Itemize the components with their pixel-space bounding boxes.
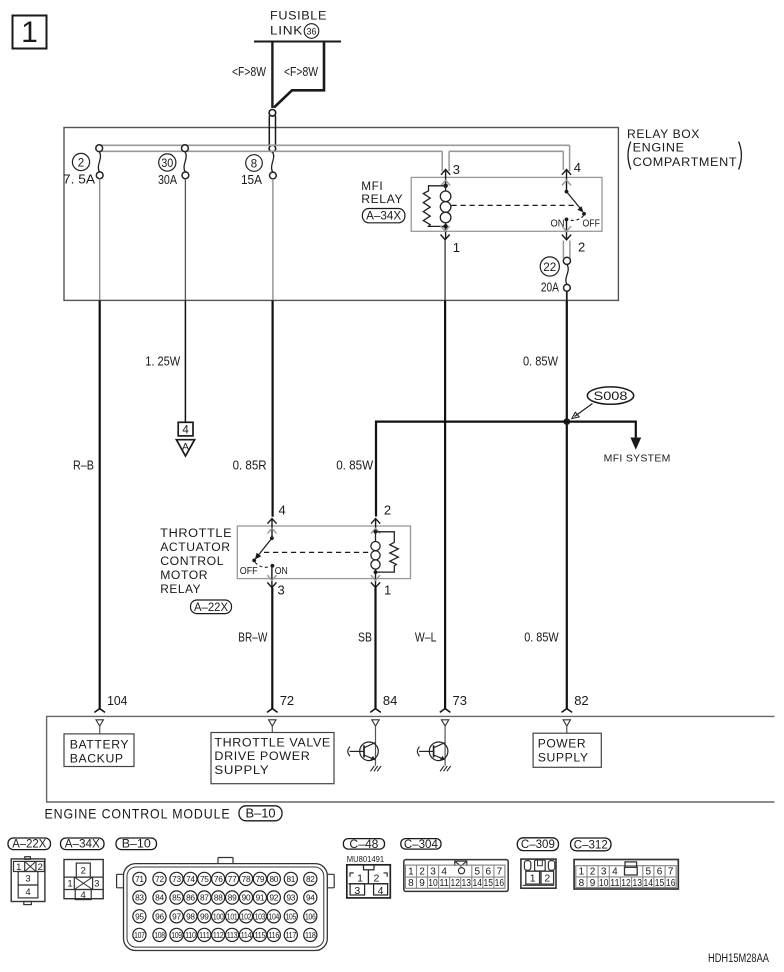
svg-text:3: 3 (453, 162, 460, 177)
svg-text:1: 1 (408, 867, 414, 878)
dashed throw arc (569, 216, 584, 221)
svg-text:20A: 20A (541, 281, 560, 295)
MFI relay resistor (423, 186, 445, 227)
svg-text:POWER: POWER (538, 737, 587, 751)
fuse 22 socket prongs (563, 241, 570, 259)
connector C-304 face (404, 860, 508, 892)
svg-text:100: 100 (213, 911, 224, 921)
svg-text:A–34X: A–34X (65, 839, 100, 851)
svg-text:R–B: R–B (73, 459, 94, 473)
MFI relay OFF contact (582, 212, 586, 216)
throttle ON contact (271, 564, 275, 568)
connector label C-48 (343, 839, 384, 851)
svg-text:10: 10 (599, 878, 609, 889)
svg-text:SUPPLY: SUPPLY (214, 763, 269, 777)
svg-text:106: 106 (305, 911, 316, 921)
wire W-L full drop (444, 300, 446, 708)
pin 3 chevrons (441, 170, 450, 186)
fuse 30 30A (158, 145, 189, 187)
svg-text:6: 6 (486, 867, 492, 878)
svg-text:112: 112 (213, 930, 224, 940)
throttle switch arm (258, 538, 272, 556)
svg-text:0. 85R: 0. 85R (233, 459, 267, 473)
svg-text:2: 2 (38, 862, 43, 873)
connector label B-10 (116, 838, 157, 851)
svg-text:10: 10 (428, 878, 438, 889)
bus wire upper (99, 144, 570, 146)
ECM input triangle pin 72 (269, 720, 276, 726)
svg-text:RELAY: RELAY (160, 582, 201, 596)
svg-text:S008: S008 (594, 389, 628, 403)
svg-text:3: 3 (430, 867, 436, 878)
svg-text:A–34X: A–34X (366, 209, 401, 223)
svg-text:78: 78 (242, 874, 251, 884)
svg-text:11: 11 (439, 878, 449, 889)
svg-text:MOTOR: MOTOR (160, 568, 208, 582)
svg-text:SB: SB (358, 631, 372, 645)
svg-text:0. 85W: 0. 85W (523, 355, 558, 369)
svg-text:4: 4 (574, 160, 581, 175)
svg-text:2: 2 (419, 867, 425, 878)
svg-text:1: 1 (530, 873, 536, 885)
page number box 1 (13, 16, 47, 50)
svg-text:94: 94 (306, 893, 315, 903)
MFI relay ON contact (565, 218, 569, 222)
svg-text:83: 83 (135, 893, 144, 903)
throttle pin 4 chevrons (267, 519, 276, 539)
MFI pin 2 exit chevrons (562, 219, 571, 239)
svg-text:96: 96 (155, 911, 164, 921)
svg-text:92: 92 (269, 893, 278, 903)
wire end chevron at ECM pin 104 (94, 709, 105, 713)
svg-text:15A: 15A (241, 173, 263, 187)
throttle coil node bottom (374, 570, 378, 574)
fusible link top bar wire (254, 41, 341, 43)
svg-text:1. 25W: 1. 25W (145, 355, 180, 369)
dashed throw arc (255, 562, 271, 567)
svg-text:BR–W: BR–W (238, 631, 267, 645)
splice S008 oval (572, 387, 634, 419)
svg-text:1: 1 (453, 240, 460, 255)
svg-text:7: 7 (668, 867, 674, 878)
svg-text:THROTTLE VALVE: THROTTLE VALVE (214, 736, 331, 750)
svg-text:ENGINE: ENGINE (633, 140, 685, 154)
MFI relay coil node bottom (443, 224, 448, 229)
svg-text:ENGINE CONTROL MODULE: ENGINE CONTROL MODULE (45, 806, 231, 822)
svg-text:109: 109 (171, 930, 182, 940)
svg-text:A–22X: A–22X (194, 600, 228, 614)
svg-text:0. 85W: 0. 85W (336, 459, 373, 473)
svg-text:4: 4 (279, 502, 286, 517)
svg-text:103: 103 (255, 911, 266, 921)
svg-text:93: 93 (286, 893, 295, 903)
svg-text:FUSIBLE: FUSIBLE (270, 9, 327, 23)
svg-text:15: 15 (484, 878, 494, 889)
dashed actuation link (264, 551, 370, 553)
svg-text:MFI SYSTEM: MFI SYSTEM (604, 454, 671, 465)
svg-text:MU801491: MU801491 (347, 854, 385, 864)
svg-text:71: 71 (135, 874, 144, 884)
fuse 8 15A (241, 152, 276, 187)
transistor Q1 (348, 726, 381, 771)
MFI relay coil L1 (440, 186, 451, 227)
svg-text:4: 4 (378, 885, 384, 897)
svg-text:84: 84 (383, 693, 397, 708)
MFI relay U1 box (411, 177, 602, 231)
svg-text:4: 4 (25, 887, 30, 898)
ECM input triangle pin 84 (372, 720, 379, 726)
svg-text:72: 72 (155, 874, 164, 884)
node S008 junction (563, 418, 570, 425)
svg-text:1: 1 (67, 879, 72, 890)
svg-text:99: 99 (200, 911, 209, 921)
pin 4 chevrons (562, 170, 571, 192)
wire from fuse 30 inside relay box (184, 179, 186, 301)
svg-text:80: 80 (269, 874, 278, 884)
svg-text:MFI: MFI (361, 179, 383, 193)
throttle pin 2 chevrons (371, 519, 380, 532)
svg-text:4: 4 (441, 867, 447, 878)
svg-text:77: 77 (228, 874, 237, 884)
svg-text:114: 114 (241, 930, 252, 940)
svg-text:72: 72 (280, 693, 294, 708)
svg-text:C–48: C–48 (349, 839, 378, 851)
svg-text:9: 9 (590, 878, 596, 889)
power supply block (533, 733, 601, 767)
wire right drop <F>8W (274, 42, 324, 108)
throttle coil node top (374, 530, 378, 534)
svg-text:2: 2 (578, 240, 585, 255)
svg-text:117: 117 (286, 930, 297, 940)
MFI relay actuation dashed link (452, 204, 576, 206)
svg-text:B–10: B–10 (246, 807, 276, 821)
svg-text:95: 95 (135, 911, 144, 921)
svg-text:3: 3 (25, 874, 30, 885)
svg-text:75: 75 (200, 874, 209, 884)
svg-text:2: 2 (544, 873, 550, 885)
connector label C-309 (517, 838, 558, 851)
svg-text:9: 9 (419, 878, 425, 889)
svg-text:87: 87 (200, 893, 209, 903)
svg-text:12: 12 (621, 878, 631, 889)
wire left drop <F>8W (271, 42, 273, 109)
connector A-34X face (64, 860, 103, 900)
throttle valve drive power supply block (211, 733, 334, 784)
connector C-309 face (521, 859, 556, 888)
wire 1.25W (184, 300, 186, 421)
svg-text:W–L: W–L (415, 631, 437, 645)
connector label C-304 (401, 839, 441, 851)
ECM input triangle pin 104 (96, 720, 103, 726)
fusible link symbol (double line) (269, 110, 276, 152)
wire end chevron at ECM pin 73 (440, 709, 451, 713)
svg-text:13: 13 (461, 878, 471, 889)
throttle pin 3 exit chevrons (267, 566, 276, 588)
svg-text:1: 1 (16, 862, 21, 873)
svg-text:16: 16 (666, 878, 676, 889)
svg-text:6: 6 (657, 867, 663, 878)
ground (440, 766, 451, 771)
wire end chevron at ECM pin 84 (370, 709, 381, 713)
svg-text:2: 2 (81, 866, 86, 877)
ECM input triangle pin 82 (563, 720, 570, 726)
MFI pin 1 exit chevrons (441, 226, 450, 239)
svg-text:3: 3 (601, 867, 607, 878)
throttle resistor (376, 532, 399, 572)
svg-text:30A: 30A (158, 173, 178, 187)
svg-text:7. 5A: 7. 5A (63, 173, 96, 187)
throttle pin 1 exit chevrons (371, 572, 380, 588)
MFI relay switch arm (567, 192, 582, 210)
svg-text:2: 2 (384, 502, 391, 517)
bus wire lower (99, 150, 563, 152)
wire from fuse 8 inside relay box (272, 179, 274, 301)
svg-text:1: 1 (21, 16, 38, 49)
svg-text:13: 13 (632, 878, 642, 889)
svg-text:90: 90 (242, 893, 251, 903)
svg-text:ON: ON (275, 565, 288, 577)
ECM U2 box (47, 716, 775, 802)
MFI RELAY caption (361, 179, 403, 206)
off-page connector box 4 (178, 422, 193, 436)
svg-text:113: 113 (227, 930, 238, 940)
svg-text:4: 4 (182, 425, 189, 437)
wire 0.85W main drop (566, 300, 568, 708)
svg-text:101: 101 (227, 911, 238, 921)
wire 0.85R (272, 300, 274, 516)
svg-text:<F>8W: <F>8W (232, 65, 266, 79)
connector label B-10 (caption) (239, 806, 282, 821)
lead to power supply block (566, 726, 568, 733)
svg-text:82: 82 (574, 693, 588, 708)
svg-text:84: 84 (155, 893, 164, 903)
svg-text:8: 8 (251, 158, 257, 170)
fuse 22 20A (540, 257, 570, 295)
connector label C-312 (571, 838, 612, 851)
svg-text:0. 85W: 0. 85W (524, 631, 559, 645)
wire end chevron at ECM pin 82 (562, 709, 573, 713)
wire BR-W (271, 588, 273, 709)
svg-text:98: 98 (186, 911, 195, 921)
svg-text:108: 108 (154, 930, 165, 940)
connector C-312 face (574, 860, 678, 890)
wire SB (374, 588, 376, 709)
battery backup block (64, 734, 134, 767)
wire W-L inside relay box (444, 240, 446, 301)
svg-text:RELAY: RELAY (361, 192, 403, 206)
svg-text:4: 4 (612, 867, 618, 878)
svg-text:1: 1 (357, 872, 363, 884)
svg-text:14: 14 (473, 878, 483, 889)
svg-text:12: 12 (450, 878, 460, 889)
connector pin 3 socket prongs (442, 151, 449, 171)
svg-text:73: 73 (453, 693, 467, 708)
svg-text:11: 11 (610, 878, 620, 889)
svg-text:111: 111 (199, 930, 210, 940)
svg-text:2: 2 (590, 867, 596, 878)
MFI relay coil node top (443, 184, 448, 189)
lead to battery backup (99, 726, 101, 734)
ECM input triangle pin 73 (441, 720, 448, 726)
svg-text:BACKUP: BACKUP (70, 751, 124, 765)
svg-text:ACTUATOR: ACTUATOR (160, 540, 231, 554)
svg-text:79: 79 (256, 874, 265, 884)
connector label A-34X (61, 838, 105, 851)
wire R-B (99, 300, 101, 708)
svg-text:76: 76 (214, 874, 223, 884)
svg-text:104: 104 (107, 693, 127, 708)
svg-text:LINK: LINK (270, 24, 303, 38)
branch wire to MFI SYSTEM (567, 422, 636, 439)
svg-text:110: 110 (185, 930, 196, 940)
svg-text:BATTERY: BATTERY (70, 737, 130, 751)
throttle coil L2 (371, 532, 380, 572)
svg-text:73: 73 (172, 874, 181, 884)
svg-text:5: 5 (475, 867, 481, 878)
off-page triangle A (176, 440, 194, 456)
svg-text:2: 2 (78, 157, 84, 169)
svg-text:DRIVE POWER: DRIVE POWER (214, 749, 310, 763)
relay box (engine compartment) (64, 128, 618, 301)
throttle OFF contact (252, 559, 256, 563)
svg-text:22: 22 (543, 262, 556, 274)
svg-text:CONTROL: CONTROL (160, 554, 224, 568)
branch wire to throttle relay pin 2 (376, 422, 567, 517)
connector B-10 face (117, 858, 335, 951)
svg-text:85: 85 (172, 893, 181, 903)
wire from fuse 2 inside relay box (99, 179, 101, 301)
ground (371, 766, 382, 771)
svg-text:COMPARTMENT: COMPARTMENT (633, 155, 738, 169)
svg-text:3: 3 (94, 879, 99, 890)
connector A-22X face (11, 857, 45, 905)
connector label A-22X (8, 838, 51, 851)
svg-text:2: 2 (373, 872, 379, 884)
fusible link 36 label (270, 9, 327, 39)
throttle switch common dot (270, 536, 274, 540)
svg-text:SUPPLY: SUPPLY (538, 751, 589, 765)
svg-text:118: 118 (305, 930, 316, 940)
svg-text:OFF: OFF (240, 565, 258, 577)
transistor Q2 (417, 726, 450, 771)
svg-text:1: 1 (579, 867, 585, 878)
svg-text:116: 116 (269, 930, 280, 940)
wire below fuse 22 inside box (566, 291, 568, 300)
svg-text:C–304: C–304 (404, 839, 439, 851)
svg-text:89: 89 (228, 893, 237, 903)
svg-text:115: 115 (255, 930, 266, 940)
svg-text:81: 81 (286, 874, 295, 884)
svg-text:82: 82 (306, 874, 315, 884)
svg-text:86: 86 (186, 893, 195, 903)
svg-text:88: 88 (214, 893, 223, 903)
MFI relay switch common dot (565, 190, 569, 194)
svg-text:74: 74 (186, 874, 195, 884)
throttle relay K2 box (237, 526, 410, 579)
svg-text:<F>8W: <F>8W (284, 65, 318, 79)
svg-text:8: 8 (408, 878, 414, 889)
svg-text:HDH15M28AA: HDH15M28AA (708, 953, 769, 965)
svg-text:107: 107 (134, 930, 145, 940)
svg-text:104: 104 (269, 911, 280, 921)
lead to throttle valve block (271, 726, 273, 733)
svg-text:7: 7 (497, 867, 503, 878)
svg-text:3: 3 (354, 885, 360, 897)
connector label A-34X (relay) (362, 209, 405, 223)
svg-text:RELAY BOX: RELAY BOX (627, 127, 700, 141)
svg-text:A–22X: A–22X (12, 839, 46, 851)
svg-text:A: A (182, 441, 189, 453)
svg-text:5: 5 (646, 867, 652, 878)
svg-text:15: 15 (655, 878, 665, 889)
svg-text:C–309: C–309 (521, 839, 555, 851)
svg-text:4: 4 (81, 890, 86, 901)
svg-text:C–312: C–312 (574, 839, 608, 851)
THROTTLE ACTUATOR CONTROL MOTOR RELAY caption (160, 526, 232, 596)
wire end chevron at ECM pin 72 (267, 709, 278, 713)
svg-text:105: 105 (286, 911, 297, 921)
svg-text:8: 8 (579, 878, 585, 889)
svg-text:16: 16 (495, 878, 505, 889)
svg-text:91: 91 (256, 893, 265, 903)
svg-text:102: 102 (241, 911, 252, 921)
relay box caption (627, 127, 741, 170)
svg-text:3: 3 (278, 582, 285, 597)
fuse 2 7.5A (63, 145, 103, 187)
svg-text:THROTTLE: THROTTLE (160, 526, 232, 540)
svg-text:14: 14 (644, 878, 654, 889)
connector pin 4 socket prongs (563, 145, 569, 171)
svg-text:36: 36 (307, 27, 317, 38)
svg-text:1: 1 (384, 582, 391, 597)
connector label A-22X (relay) (191, 600, 232, 614)
svg-text:97: 97 (172, 911, 181, 921)
svg-text:30: 30 (161, 158, 173, 170)
svg-text:B–10: B–10 (122, 839, 151, 851)
svg-text:OFF: OFF (583, 217, 601, 229)
